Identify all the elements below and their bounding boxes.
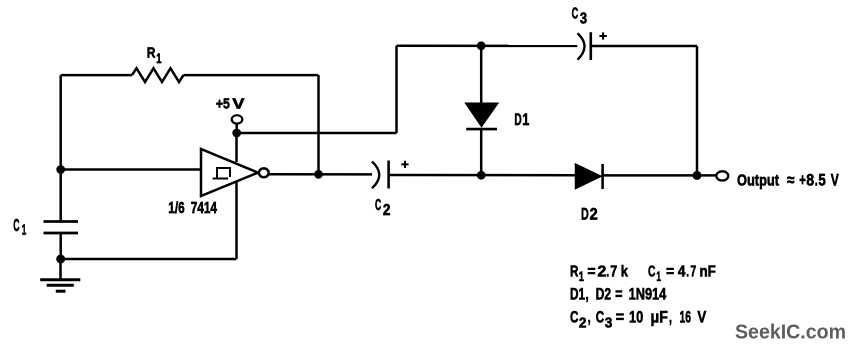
- ground stub: [59, 259, 62, 279]
- resistor R1: [132, 68, 184, 82]
- svg-text:=: =: [666, 263, 674, 280]
- wire feedback vertical down to inverter output node: [317, 75, 320, 174]
- label C3: [572, 6, 588, 28]
- svg-text:1: 1: [656, 268, 661, 284]
- hysteresis symbol inside U1: [213, 168, 231, 179]
- svg-text:R: R: [147, 45, 156, 62]
- svg-text:8: 8: [806, 171, 814, 190]
- capacitor C2 straight plate: [387, 161, 390, 189]
- label C1: [13, 215, 26, 238]
- svg-text:C: C: [572, 6, 579, 23]
- svg-text:C: C: [648, 263, 655, 280]
- wire C3 to right corner: [592, 45, 698, 48]
- wire inverter output to C2: [269, 173, 372, 176]
- svg-text:7: 7: [610, 263, 617, 280]
- ground bar 1: [40, 278, 80, 281]
- wire D2 to output node: [603, 174, 716, 177]
- svg-text:7414: 7414: [191, 200, 217, 217]
- svg-text:.: .: [606, 263, 609, 280]
- svg-text:2: 2: [590, 206, 598, 224]
- svg-text:k: k: [621, 263, 629, 280]
- label Output = +8.5 V: [737, 171, 839, 190]
- capacitor C2 curved plate: [372, 162, 379, 189]
- svg-text:V: V: [232, 95, 244, 112]
- wire D1 top branch: [480, 46, 483, 104]
- wire inverter power stub: [235, 133, 238, 162]
- wire top left horizontal to R1: [61, 74, 132, 77]
- svg-text:D: D: [514, 111, 521, 129]
- svg-text:C: C: [596, 309, 605, 327]
- svg-text:=: =: [587, 263, 595, 280]
- svg-text:=: =: [616, 309, 624, 327]
- junction D1 top node: [477, 41, 486, 50]
- junction D1 bottom node: [477, 171, 486, 180]
- svg-text:nF: nF: [700, 263, 716, 280]
- wire R1 right to corner: [184, 74, 319, 77]
- capacitor C3 curved plate: [578, 33, 585, 59]
- wire input node to inverter input: [61, 168, 201, 171]
- svg-text:1N914: 1N914: [629, 286, 667, 304]
- D1 cathode bar: [466, 128, 497, 131]
- svg-text:V: V: [831, 171, 840, 190]
- junction ground node: [56, 255, 65, 264]
- svg-text:,: ,: [669, 309, 672, 327]
- value label C2, C3 = 10 uF, 16 V: [570, 309, 706, 332]
- capacitor C3 straight plate: [589, 32, 592, 60]
- wire left vertical (input node to C1 top): [59, 75, 62, 221]
- svg-text:C: C: [375, 197, 381, 214]
- inverter U1 (1/6 7414 Schmitt trigger) triangle: [201, 149, 258, 196]
- svg-text:D1: D1: [570, 286, 585, 304]
- svg-text:μF: μF: [651, 309, 668, 327]
- svg-text:+5: +5: [216, 95, 230, 112]
- svg-text:1: 1: [156, 50, 161, 66]
- svg-text:.: .: [815, 171, 818, 190]
- ground bar 3: [56, 290, 66, 293]
- svg-text:D2: D2: [596, 286, 612, 304]
- svg-text:4: 4: [678, 263, 686, 280]
- junction +5V node: [232, 129, 241, 138]
- diode D2: [576, 165, 600, 188]
- power terminal +5V circle: [232, 115, 243, 123]
- svg-text:1: 1: [522, 111, 529, 129]
- ground bar 2: [47, 284, 74, 287]
- svg-text:2: 2: [597, 263, 606, 280]
- svg-text:V: V: [697, 309, 706, 327]
- wire inverter ground stub: [235, 182, 238, 260]
- svg-text:C: C: [570, 309, 579, 327]
- svg-text:,: ,: [588, 309, 591, 327]
- wire +5V terminal stub: [235, 123, 238, 133]
- value label C1 = 4.7 nF: [648, 263, 716, 284]
- svg-text:=: =: [615, 286, 622, 304]
- junction input node: [56, 165, 65, 174]
- svg-text:.: .: [686, 263, 689, 280]
- label R1: [147, 45, 162, 66]
- svg-text:7: 7: [690, 263, 696, 280]
- value label R1 = 2.7 k: [570, 263, 628, 284]
- svg-text:2: 2: [383, 202, 391, 219]
- wire right vertical down to output node: [696, 46, 699, 175]
- value label D1, D2 = 1N914: [570, 286, 666, 304]
- wire D1 bottom branch: [480, 129, 483, 175]
- wire top rail to C3: [397, 44, 578, 47]
- wire C2 to D2: [390, 174, 577, 177]
- svg-text:Output: Output: [737, 173, 780, 190]
- svg-text:5: 5: [818, 171, 825, 190]
- svg-text:16: 16: [680, 309, 692, 327]
- svg-text:+: +: [799, 171, 806, 190]
- C2 plus polarity mark: [401, 161, 408, 168]
- D2 cathode bar: [601, 164, 604, 189]
- wire riser up to top rail: [395, 46, 398, 133]
- diode D1: [467, 104, 497, 126]
- svg-text:1: 1: [22, 221, 27, 238]
- svg-text:C: C: [13, 215, 19, 235]
- svg-text:1/6: 1/6: [168, 200, 184, 217]
- label C2: [375, 197, 390, 219]
- wire C1 bottom to ground node: [59, 233, 62, 259]
- junction output node: [693, 171, 702, 180]
- capacitor C1 bottom plate: [44, 232, 79, 235]
- svg-text:≈: ≈: [787, 171, 794, 190]
- svg-text:3: 3: [580, 11, 588, 28]
- svg-text:3: 3: [605, 316, 613, 332]
- wire bottom ground rail: [61, 258, 237, 261]
- svg-text:1: 1: [579, 268, 584, 284]
- junction inverter output node: [314, 170, 323, 179]
- C3 plus polarity mark: [599, 32, 606, 39]
- svg-text:D: D: [581, 206, 589, 224]
- svg-text:R: R: [570, 263, 578, 280]
- svg-text:SeekIC.com: SeekIC.com: [735, 321, 846, 344]
- inverter output bubble: [259, 168, 269, 177]
- svg-text:10: 10: [629, 309, 643, 327]
- output terminal circle: [716, 171, 728, 180]
- capacitor C1 top plate: [44, 220, 79, 223]
- svg-text:,: ,: [585, 286, 588, 304]
- wire +5V node to riser: [237, 132, 397, 135]
- svg-text:2: 2: [579, 316, 587, 332]
